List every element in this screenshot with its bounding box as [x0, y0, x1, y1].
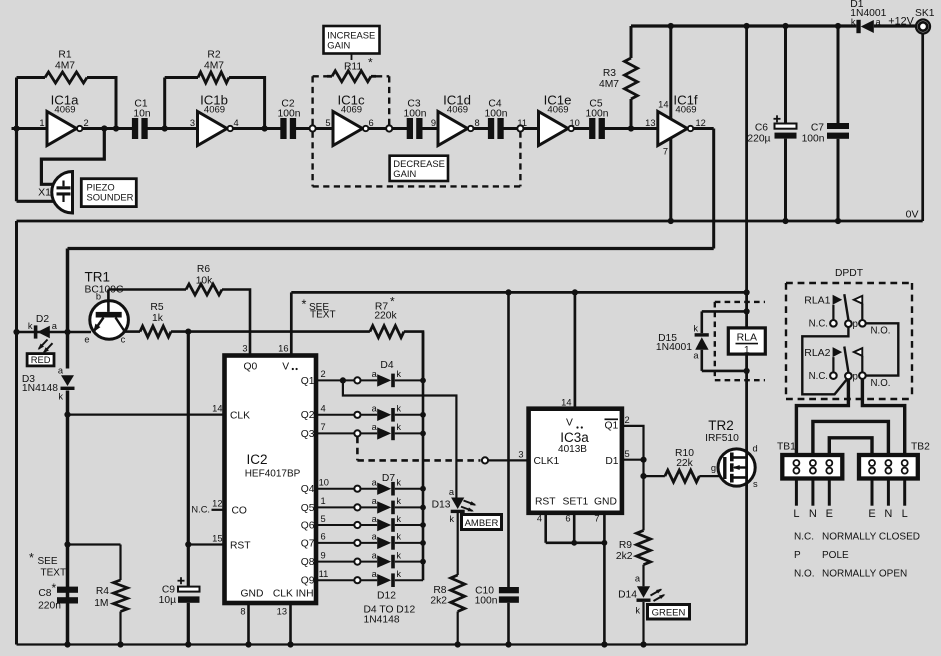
- svg-text:k: k: [28, 321, 33, 331]
- IC2 output Q5 diode row: [301, 496, 426, 514]
- svg-text:13: 13: [645, 118, 655, 128]
- svg-text:R6: R6: [197, 264, 210, 275]
- svg-text:k: k: [396, 478, 401, 488]
- svg-text:22k: 22k: [676, 458, 693, 469]
- diode D15: [656, 308, 750, 374]
- svg-text:13: 13: [277, 607, 287, 617]
- svg-text:N.O.: N.O.: [871, 326, 891, 337]
- resistor R2: [162, 50, 268, 132]
- wire RLA2 NO to TB2: [862, 379, 904, 460]
- inverter IC1e: [517, 93, 580, 146]
- svg-text:CLK INH: CLK INH: [273, 589, 314, 600]
- svg-text:c: c: [121, 335, 126, 345]
- svg-text:d: d: [753, 444, 758, 454]
- wire left border: [15, 221, 18, 645]
- svg-text:TB1: TB1: [777, 442, 796, 453]
- wire IC3a pin7: [601, 513, 607, 648]
- svg-text:16: 16: [278, 344, 288, 354]
- wire piezo top: [41, 129, 104, 185]
- diode D13 LED: [432, 487, 477, 524]
- label INCREASE GAIN box: [324, 26, 380, 60]
- wire piezo bottom: [17, 129, 55, 202]
- resistor R6: [108, 264, 250, 356]
- svg-text:4069: 4069: [204, 105, 225, 116]
- resistor R1: [17, 50, 117, 129]
- capacitor C2: [278, 99, 301, 140]
- capacitor C3: [404, 99, 427, 140]
- svg-text:V: V: [566, 418, 573, 429]
- dashed relay coil box: [715, 302, 765, 380]
- wire bottom 0V rail: [17, 643, 747, 645]
- label RED box: [27, 354, 54, 366]
- wire RLA2 pole to TB1: [796, 380, 848, 460]
- diode D2 LED: [13, 314, 91, 354]
- svg-text:p: p: [853, 371, 858, 382]
- svg-text:GAIN: GAIN: [393, 168, 416, 179]
- wire heavy vertical node: [66, 249, 70, 645]
- terminal block TB1: [777, 442, 842, 479]
- wire main oscillator line: [12, 127, 658, 130]
- resistor R9: [616, 530, 651, 586]
- svg-text:CLK1: CLK1: [534, 456, 560, 467]
- svg-text:p: p: [853, 319, 858, 330]
- svg-text:1N4001: 1N4001: [850, 8, 886, 19]
- svg-text:4: 4: [234, 118, 239, 128]
- svg-text:L: L: [902, 508, 908, 520]
- svg-text:HEF4017BP: HEF4017BP: [245, 469, 301, 480]
- svg-text:N: N: [809, 508, 817, 520]
- wire R4 branch: [64, 541, 120, 547]
- node link 3: [517, 125, 523, 131]
- svg-text:8: 8: [240, 607, 245, 617]
- svg-text:4M7: 4M7: [204, 61, 224, 72]
- svg-text:D13: D13: [432, 500, 451, 511]
- svg-text:k: k: [396, 569, 401, 579]
- svg-text:Q4: Q4: [301, 484, 315, 495]
- svg-text:Q5: Q5: [301, 503, 315, 514]
- svg-text:V: V: [282, 362, 289, 373]
- label PIEZO SOUNDER box: [81, 179, 136, 207]
- svg-text:N.O.: N.O.: [794, 569, 815, 580]
- svg-text:k: k: [396, 532, 401, 542]
- wire +12V feed vertical: [745, 26, 748, 645]
- svg-text:3: 3: [190, 118, 195, 128]
- svg-text:8: 8: [475, 118, 480, 128]
- svg-text:R11: R11: [344, 61, 362, 72]
- capacitor C7: [802, 23, 849, 224]
- svg-text:100n: 100n: [475, 595, 498, 606]
- svg-text:11: 11: [517, 118, 527, 128]
- capacitor C4: [485, 99, 508, 140]
- IC IC3a 4013B: [529, 409, 622, 513]
- svg-text:10k: 10k: [196, 276, 213, 287]
- diode D1: [850, 0, 886, 33]
- svg-text:SK1: SK1: [915, 8, 935, 19]
- svg-text:100n: 100n: [485, 109, 508, 120]
- svg-text:9: 9: [321, 550, 326, 560]
- wire TB terminals: [796, 455, 904, 506]
- svg-text:RST: RST: [230, 540, 251, 551]
- label GREEN box: [648, 605, 690, 620]
- label D4: [380, 360, 393, 371]
- label see text lower: [29, 551, 66, 579]
- svg-text:2k2: 2k2: [616, 551, 633, 562]
- svg-text:4069: 4069: [675, 105, 696, 116]
- resistor R11: [327, 56, 376, 82]
- wire C9 vertical: [185, 332, 191, 648]
- diode D14 LED: [618, 574, 665, 648]
- label TB2 ENL: [868, 508, 907, 520]
- svg-text:RED: RED: [31, 354, 51, 365]
- transistor TR1: [84, 270, 128, 345]
- svg-text:1: 1: [39, 118, 44, 128]
- svg-text:IC2: IC2: [246, 452, 267, 467]
- svg-text:b: b: [96, 292, 101, 302]
- svg-text:4: 4: [537, 513, 542, 523]
- label IC2 left pins: [191, 498, 224, 514]
- wire E link: [829, 438, 872, 460]
- IC2 output Q4 diode row: [301, 478, 426, 496]
- svg-text:a: a: [372, 422, 378, 432]
- terminal block TB2: [859, 442, 930, 479]
- svg-text:N.C.: N.C.: [809, 319, 828, 330]
- svg-text:SOUNDER: SOUNDER: [87, 192, 134, 203]
- svg-text:4M7: 4M7: [55, 61, 75, 72]
- svg-text:R4: R4: [96, 586, 109, 597]
- wire IC2 pin8: [240, 603, 251, 648]
- svg-text:7: 7: [663, 147, 668, 157]
- node +12V feed: [744, 23, 750, 29]
- svg-text:*: *: [52, 581, 57, 595]
- svg-text:IRF510: IRF510: [705, 433, 739, 444]
- svg-text:N.O.: N.O.: [871, 378, 891, 389]
- svg-text:RLA: RLA: [737, 332, 757, 344]
- svg-text:220n: 220n: [38, 601, 61, 612]
- svg-text:AMBER: AMBER: [465, 518, 499, 529]
- svg-text:1N4001: 1N4001: [656, 342, 692, 353]
- relay contact RLA2: [804, 347, 890, 389]
- svg-text:k: k: [693, 324, 698, 334]
- label TB1 LNE: [793, 508, 833, 520]
- svg-text:k: k: [396, 550, 401, 560]
- svg-text:10: 10: [570, 118, 580, 128]
- svg-text:2: 2: [84, 118, 89, 128]
- label AMBER box: [462, 515, 502, 530]
- svg-text:2k2: 2k2: [430, 596, 447, 607]
- svg-text:GREEN: GREEN: [652, 608, 686, 619]
- svg-text:C8: C8: [38, 588, 51, 599]
- svg-text:k: k: [635, 606, 640, 616]
- svg-text:Q2: Q2: [301, 410, 315, 421]
- svg-text:k: k: [396, 514, 401, 524]
- svg-text:L: L: [793, 508, 799, 520]
- resistor R7: [370, 295, 423, 381]
- svg-text:10: 10: [319, 478, 329, 488]
- svg-text:a: a: [372, 569, 378, 579]
- svg-text:P: P: [794, 550, 801, 561]
- svg-text:SEE: SEE: [38, 556, 58, 567]
- svg-text:*: *: [390, 295, 395, 309]
- wire IC3a pin14: [561, 289, 578, 408]
- svg-text:TR1: TR1: [85, 270, 111, 285]
- capacitor C1: [132, 99, 151, 140]
- relay contact RLA1: [804, 294, 890, 336]
- svg-text:CO: CO: [232, 505, 247, 516]
- svg-text:3: 3: [518, 450, 523, 460]
- inverter IC1f: [645, 93, 706, 157]
- svg-text:1N4148: 1N4148: [22, 383, 58, 394]
- inverter IC1d: [431, 93, 480, 146]
- svg-text:s: s: [753, 479, 758, 489]
- svg-text:100n: 100n: [802, 134, 825, 145]
- svg-text:IC3a: IC3a: [560, 430, 589, 445]
- IC2 output Q2 diode row: [301, 404, 426, 422]
- svg-text:2: 2: [321, 369, 326, 379]
- svg-text:R9: R9: [619, 540, 632, 551]
- wire IC3a pin2: [622, 415, 644, 460]
- svg-text:a: a: [449, 487, 455, 497]
- svg-text:a: a: [372, 550, 378, 560]
- wire RLA1 pole to RLA2 pole: [802, 327, 848, 394]
- svg-text:a: a: [372, 478, 378, 488]
- svg-text:220k: 220k: [374, 311, 397, 322]
- svg-text:14: 14: [212, 404, 222, 414]
- wire +12V top rail: [631, 24, 916, 27]
- wire Q1 branch: [340, 377, 457, 497]
- svg-text:Q9: Q9: [301, 576, 315, 587]
- svg-text:N.C.: N.C.: [191, 505, 210, 515]
- svg-text:D1: D1: [605, 456, 618, 467]
- svg-text:4069: 4069: [54, 105, 75, 116]
- svg-text:a: a: [372, 496, 378, 506]
- svg-text:4M7: 4M7: [599, 79, 619, 90]
- wire IC3a pin5: [622, 449, 647, 463]
- node link 2: [386, 125, 392, 131]
- resistor R8: [430, 513, 464, 648]
- svg-text:R1: R1: [58, 50, 71, 61]
- svg-text:GND: GND: [594, 497, 617, 508]
- IC2 output Q1 diode row: [301, 369, 426, 387]
- svg-text:0V: 0V: [906, 209, 919, 221]
- svg-text:15: 15: [212, 533, 222, 543]
- piezo sounder X1: [38, 171, 72, 213]
- wire V+ rail: [291, 289, 749, 295]
- svg-text:k: k: [449, 514, 454, 524]
- diode D3: [22, 366, 75, 402]
- svg-text:POLE: POLE: [822, 550, 849, 561]
- dashed option box: [313, 76, 521, 186]
- svg-text:GAIN: GAIN: [327, 40, 350, 51]
- svg-text:3: 3: [242, 344, 247, 354]
- svg-text:1: 1: [744, 344, 750, 356]
- svg-text:Q7: Q7: [301, 538, 315, 549]
- svg-text:TEXT: TEXT: [41, 568, 67, 579]
- svg-text:1: 1: [321, 496, 326, 506]
- svg-text:g: g: [711, 463, 716, 473]
- svg-text:D14: D14: [618, 590, 637, 601]
- svg-text:a: a: [693, 351, 699, 361]
- wire IC2 pin16: [278, 292, 291, 355]
- IC2 output Q6 diode row: [301, 514, 426, 532]
- svg-text:100n: 100n: [586, 109, 609, 120]
- svg-text:4: 4: [321, 404, 326, 414]
- svg-text:9: 9: [431, 118, 436, 128]
- wire RLA1 NO to RLA2 NO: [866, 323, 899, 375]
- svg-text:12: 12: [696, 118, 706, 128]
- label DECREASE GAIN box: [390, 156, 448, 181]
- svg-text:E: E: [868, 508, 875, 520]
- svg-text:6: 6: [565, 513, 570, 523]
- svg-text:N.C.: N.C.: [809, 371, 828, 382]
- IC2 output Q7 diode row: [301, 532, 426, 550]
- svg-text:C7: C7: [811, 123, 824, 134]
- wire diode bus: [422, 332, 425, 581]
- wire IC1f output rail: [68, 247, 714, 250]
- label IC3a pin3: [518, 450, 523, 460]
- svg-text:10n: 10n: [133, 109, 150, 120]
- inverter IC1c: [325, 93, 373, 146]
- svg-text:+12V: +12V: [888, 16, 914, 28]
- node link 1: [310, 125, 316, 131]
- svg-text:a: a: [372, 404, 378, 414]
- svg-text:D7: D7: [382, 473, 395, 484]
- svg-text:14: 14: [658, 100, 668, 110]
- connector SK1: [888, 8, 934, 34]
- svg-text:R8: R8: [433, 585, 446, 596]
- wire CLK line: [64, 404, 224, 418]
- svg-text:7: 7: [321, 422, 326, 432]
- dashed DPDT box: [786, 283, 912, 399]
- svg-text:Q1: Q1: [605, 421, 619, 432]
- svg-text:DPDT: DPDT: [835, 268, 864, 279]
- svg-text:GND: GND: [241, 589, 264, 600]
- svg-text:Q6: Q6: [301, 520, 315, 531]
- svg-text:*: *: [368, 56, 373, 70]
- wire RST line: [188, 533, 224, 544]
- svg-text:TEXT: TEXT: [310, 310, 336, 321]
- svg-text:CLK: CLK: [230, 410, 250, 421]
- resistor R10: [644, 448, 725, 482]
- svg-text:1M: 1M: [94, 598, 108, 609]
- svg-text:e: e: [84, 335, 89, 345]
- wire TR1 collector: [125, 330, 140, 333]
- wire IC1f output to rail: [693, 129, 714, 249]
- capacitor C10: [475, 289, 519, 647]
- svg-text:k: k: [396, 369, 401, 379]
- wire IC2 pin13: [277, 603, 294, 648]
- wire IC1 power vertical: [668, 23, 674, 224]
- wire IC2 pin3: [242, 344, 247, 354]
- svg-text:4013B: 4013B: [558, 444, 587, 455]
- svg-text:6: 6: [369, 118, 374, 128]
- svg-text:11: 11: [319, 569, 329, 579]
- IC IC2 HEF4017BP: [225, 356, 317, 604]
- svg-text:k: k: [58, 392, 63, 402]
- svg-text:TB2: TB2: [911, 442, 930, 453]
- svg-text:NORMALLY CLOSED: NORMALLY CLOSED: [822, 532, 920, 543]
- svg-text:R2: R2: [207, 50, 220, 61]
- svg-text:TR2: TR2: [708, 418, 734, 433]
- capacitor C6: [747, 23, 796, 224]
- svg-text:C9: C9: [162, 585, 175, 596]
- svg-text:R3: R3: [603, 68, 616, 79]
- wire gate node vertical: [640, 460, 646, 531]
- label see text upper: [302, 298, 336, 321]
- svg-text:220µ: 220µ: [747, 134, 770, 145]
- svg-text:NORMALLY OPEN: NORMALLY OPEN: [822, 569, 907, 580]
- IC2 output Q3 diode row: [301, 422, 426, 440]
- svg-text:Q1: Q1: [301, 376, 315, 387]
- svg-text:N: N: [884, 508, 892, 520]
- svg-text:RLA1: RLA1: [804, 295, 830, 307]
- svg-text:12: 12: [212, 498, 222, 508]
- svg-text:a: a: [372, 369, 378, 379]
- svg-text:Q8: Q8: [301, 557, 315, 568]
- svg-text:N.C.: N.C.: [794, 532, 814, 543]
- transistor TR2 IRF510: [705, 418, 758, 489]
- capacitor C9: [159, 577, 200, 606]
- svg-text:a: a: [58, 366, 64, 376]
- svg-text:1N4148: 1N4148: [364, 615, 400, 626]
- inverter IC1b: [190, 93, 239, 146]
- svg-text:D12: D12: [377, 591, 396, 602]
- svg-text:a: a: [372, 532, 378, 542]
- wire 0V rail: [17, 209, 923, 222]
- svg-text:2: 2: [625, 415, 630, 425]
- svg-text:SET1: SET1: [563, 497, 589, 508]
- svg-text:Q0: Q0: [244, 362, 258, 373]
- svg-text:4069: 4069: [547, 105, 568, 116]
- svg-text:*: *: [29, 551, 34, 565]
- svg-text:a: a: [635, 574, 641, 584]
- resistor R5: [140, 302, 370, 337]
- svg-text:10µ: 10µ: [159, 595, 176, 606]
- svg-text:D2: D2: [36, 314, 49, 325]
- svg-text:1k: 1k: [152, 313, 164, 324]
- wire IC3a pin4 pin6: [537, 513, 607, 546]
- svg-text:a: a: [372, 514, 378, 524]
- capacitor C5: [586, 99, 609, 140]
- svg-text:C6: C6: [755, 123, 768, 134]
- inverter IC1a: [39, 93, 88, 146]
- resistor R4: [94, 545, 127, 648]
- wire Q3 dashed to IC3a: [357, 437, 528, 464]
- svg-text:RST: RST: [535, 497, 556, 508]
- svg-text:D4: D4: [380, 360, 393, 371]
- label D4 TO D12 1N4148: [364, 605, 416, 626]
- resistor R3: [599, 26, 638, 132]
- svg-text:5: 5: [321, 514, 326, 524]
- svg-text:100n: 100n: [404, 109, 427, 120]
- svg-text:5: 5: [325, 118, 330, 128]
- IC2 output Q9 diode row: [301, 569, 423, 587]
- svg-text:X1: X1: [38, 187, 51, 199]
- wire SK1 drop: [921, 34, 924, 222]
- svg-text:a: a: [52, 321, 58, 331]
- svg-text:E: E: [826, 508, 833, 520]
- svg-text:Q3: Q3: [301, 429, 315, 440]
- svg-text:RLA2: RLA2: [804, 347, 830, 359]
- IC2 output Q8 diode row: [301, 550, 426, 568]
- svg-text:4069: 4069: [447, 105, 468, 116]
- label DPDT: [835, 268, 864, 279]
- legend contacts: [794, 532, 920, 580]
- svg-text:100n: 100n: [278, 109, 301, 120]
- label D7: [382, 473, 395, 484]
- svg-text:7: 7: [594, 513, 599, 523]
- svg-text:14: 14: [561, 398, 571, 408]
- svg-text:R5: R5: [150, 302, 163, 313]
